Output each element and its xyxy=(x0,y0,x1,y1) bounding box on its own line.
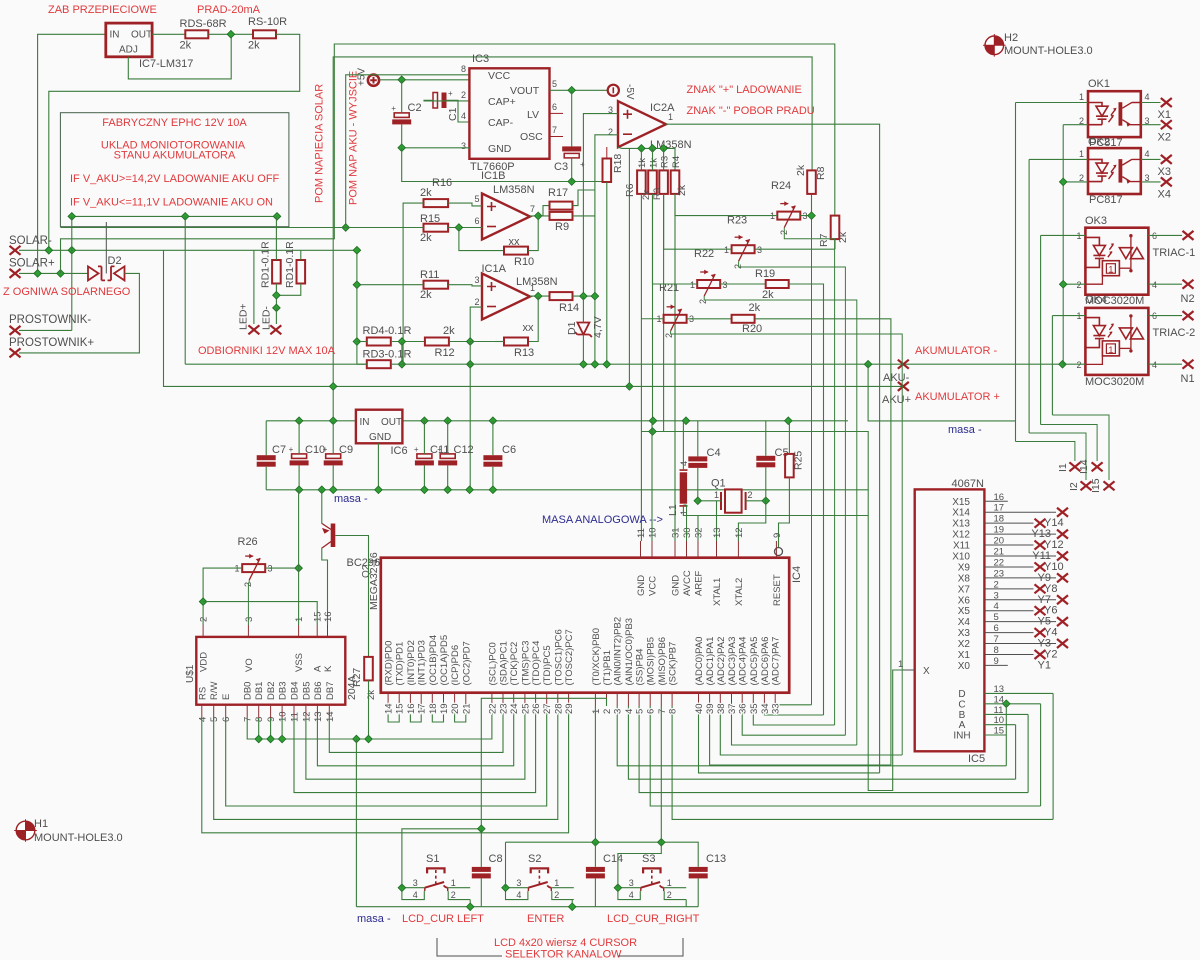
capacitor C4 xyxy=(688,456,707,461)
op-amp IC2A LM358N xyxy=(618,101,666,147)
wire OK2 pin2 xyxy=(1063,181,1088,183)
svg-text:masa -: masa - xyxy=(948,424,982,436)
terminal I14 X mark xyxy=(1092,462,1103,471)
resistor R18 vertical xyxy=(603,159,612,183)
svg-text:POM NAPIECIA SOLAR: POM NAPIECIA SOLAR xyxy=(314,84,326,203)
svg-text:DB5: DB5 xyxy=(301,682,312,700)
terminal Y mark X12 xyxy=(1057,530,1068,539)
junction bus A left xyxy=(68,213,76,221)
junction masa feedback col xyxy=(466,486,474,494)
wire R9 right xyxy=(573,215,595,217)
svg-text:LV: LV xyxy=(527,109,539,121)
junction R14/D1/IC2A+ xyxy=(580,292,588,300)
junction rail drop on AKU+ xyxy=(626,383,634,391)
junction ADJ/RDS/RS node xyxy=(227,30,235,38)
switch S2 body xyxy=(531,868,548,873)
svg-text:2k: 2k xyxy=(795,164,807,176)
svg-text:8: 8 xyxy=(254,717,265,722)
svg-text:(T1)PB1: (T1)PB1 xyxy=(602,650,613,685)
wire R16 right to pin5 xyxy=(448,203,482,206)
crystal Q1 xyxy=(725,489,742,512)
wire R2x wiper down xyxy=(671,331,903,755)
svg-text:XTAL2: XTAL2 xyxy=(734,578,745,606)
wire R7 bottom xyxy=(834,239,836,249)
svg-text:AVCC: AVCC xyxy=(682,570,693,596)
terminal N2 mark xyxy=(1183,280,1194,289)
svg-text:7: 7 xyxy=(657,709,668,714)
inductor L1 xyxy=(680,470,688,506)
terminal TRIAC-2 mark xyxy=(1183,311,1194,320)
svg-text:S1: S1 xyxy=(426,853,439,865)
wire PD pair jumper b xyxy=(410,706,421,722)
svg-text:OK3: OK3 xyxy=(1085,215,1107,227)
resistor R16 2k xyxy=(424,199,449,207)
wire C3 bottom xyxy=(571,158,573,182)
svg-text:MOUNT-HOLE3.0: MOUNT-HOLE3.0 xyxy=(34,832,123,844)
svg-text:AKU+: AKU+ xyxy=(882,394,911,406)
capacitor C13 xyxy=(689,867,708,872)
junction masa transistor col xyxy=(318,486,326,494)
terminal Y mark X6 xyxy=(1057,595,1068,604)
capacitor C1 polarized horizontal xyxy=(433,93,438,109)
pin stub OSC pin7 xyxy=(550,136,564,138)
wire AREF pin32 up xyxy=(697,516,699,542)
wire OK4 pin4 N1 xyxy=(1148,363,1182,365)
svg-text:4: 4 xyxy=(1152,360,1157,370)
svg-text:RD4-0.1R: RD4-0.1R xyxy=(363,325,412,337)
svg-text:22: 22 xyxy=(487,703,498,714)
wire VSS column from masa xyxy=(298,490,300,625)
wire INH column down xyxy=(1005,704,1007,766)
svg-text:PRAD-20mA: PRAD-20mA xyxy=(197,4,261,16)
svg-text:1: 1 xyxy=(530,283,535,293)
svg-text:1: 1 xyxy=(1108,345,1113,355)
svg-text:2: 2 xyxy=(733,264,743,269)
svg-text:IC6: IC6 xyxy=(391,445,408,457)
junction bus A right xyxy=(273,213,281,221)
svg-text:POM NAP AKU - WYJSCIE: POM NAP AKU - WYJSCIE xyxy=(348,71,360,205)
pin stub LV pin6 xyxy=(550,112,564,114)
svg-text:LED+: LED+ xyxy=(238,303,250,330)
wire I15 feed xyxy=(1052,415,1109,480)
resistor R12 xyxy=(425,338,449,346)
trimmer R2x bottom xyxy=(664,315,687,323)
wire R5 column to VCC rail xyxy=(652,148,654,170)
wire C5 top to rail1 xyxy=(765,421,767,456)
wire VOUT pin5 to -5V xyxy=(550,89,608,91)
supply +5V symbol xyxy=(368,75,379,86)
voltage regulator IC7 LM317 xyxy=(106,23,152,57)
svg-text:C14: C14 xyxy=(603,853,623,865)
wire C1 right to CAP- pin4 xyxy=(447,100,470,122)
terminal X SOLAR- xyxy=(10,246,21,255)
svg-text:X8: X8 xyxy=(958,573,971,584)
svg-text:R16: R16 xyxy=(432,177,452,189)
junction masa C6 xyxy=(489,486,497,494)
capacitor C10 polarized xyxy=(292,454,307,459)
junction S2/C14 xyxy=(592,838,600,846)
svg-text:X10: X10 xyxy=(952,552,970,563)
svg-text:S2: S2 xyxy=(528,853,541,865)
svg-text:(ADC5)PA5: (ADC5)PA5 xyxy=(749,637,760,686)
op-amp IC1B LM358N xyxy=(482,194,530,240)
resistor R19 2k xyxy=(766,280,789,288)
svg-text:(TCK)PC2: (TCK)PC2 xyxy=(509,642,520,686)
pin circle RESET xyxy=(775,548,783,556)
svg-text:(ADC4)PA4: (ADC4)PA4 xyxy=(738,637,749,686)
junction bus A mid xyxy=(181,213,189,221)
svg-text:VO: VO xyxy=(244,658,255,672)
svg-text:L1: L1 xyxy=(667,504,679,516)
wire RD4 left xyxy=(357,341,367,343)
junction masa C12 xyxy=(444,486,452,494)
svg-text:K: K xyxy=(323,665,334,672)
svg-text:VOUT: VOUT xyxy=(510,85,540,97)
wire IC2A minus input to AKU- bus xyxy=(595,135,618,364)
svg-text:IF V_AKU>=14,2V LADOWANIE AKU: IF V_AKU>=14,2V LADOWANIE AKU OFF xyxy=(70,173,280,185)
junction R network c xyxy=(660,145,668,153)
svg-text:LCD_CUR LEFT: LCD_CUR LEFT xyxy=(402,913,484,925)
svg-text:OUT: OUT xyxy=(131,30,152,41)
junction S1 left xyxy=(398,884,406,892)
trimmer R22 xyxy=(732,245,755,253)
wire DB tie drop xyxy=(258,718,260,739)
junction VCC col xyxy=(649,417,657,425)
svg-text:1: 1 xyxy=(690,280,695,290)
svg-text:IC4: IC4 xyxy=(791,566,803,583)
svg-text:GND: GND xyxy=(636,575,647,596)
optotriac OK3 body xyxy=(1085,228,1148,295)
junction C4/XTAL1 xyxy=(694,497,702,505)
svg-text:LM358N: LM358N xyxy=(516,276,558,288)
wire output up to R17 xyxy=(538,206,549,216)
svg-text:40: 40 xyxy=(694,703,705,714)
wire C14 bottom xyxy=(594,878,596,906)
svg-text:23: 23 xyxy=(499,703,510,714)
wire A column down xyxy=(1015,725,1017,780)
capacitor C11 polarized xyxy=(417,454,432,459)
svg-text:(OC1B)PD4: (OC1B)PD4 xyxy=(428,635,439,686)
svg-text:1: 1 xyxy=(898,659,903,670)
svg-text:2k: 2k xyxy=(366,690,377,700)
svg-text:R13: R13 xyxy=(514,347,534,359)
junction S2 left xyxy=(502,884,510,892)
wire PROSTOWNIK- to SOLAR- net xyxy=(19,329,72,331)
wire XTAL2 jog xyxy=(738,501,765,541)
wire +5V to VCC node xyxy=(379,79,469,81)
svg-text:4: 4 xyxy=(624,709,635,714)
wire C10 bottom xyxy=(298,465,300,489)
svg-text:7: 7 xyxy=(530,204,535,214)
svg-text:OK2: OK2 xyxy=(1088,136,1110,148)
terminal Y mark X2 xyxy=(1057,639,1068,648)
wire bus A inside info box xyxy=(72,215,277,217)
wire SOLAR- rail xyxy=(19,249,357,251)
svg-text:R12: R12 xyxy=(435,347,455,359)
wire L1 bottom analog masa xyxy=(683,506,868,516)
svg-text:RDS-68R: RDS-68R xyxy=(180,18,227,30)
svg-text:34: 34 xyxy=(760,703,771,714)
svg-text:ZAB PRZEPIECIOWE: ZAB PRZEPIECIOWE xyxy=(48,4,157,16)
svg-text:(RXD)PD0: (RXD)PD0 xyxy=(384,641,395,686)
wire D column down xyxy=(1052,693,1054,819)
svg-text:(ADC0)PA0: (ADC0)PA0 xyxy=(694,637,705,686)
wire R4 column to MCU GND pin 31 xyxy=(674,194,676,541)
wire bus A mid drop to SOLAR- xyxy=(184,216,186,250)
terminal X PROSTOWNIK- xyxy=(10,326,21,335)
svg-text:GND: GND xyxy=(369,432,391,443)
svg-text:C13: C13 xyxy=(706,853,726,865)
wire C13 bottom xyxy=(697,878,699,906)
junction rail S2 xyxy=(568,903,576,911)
svg-text:H1: H1 xyxy=(34,818,48,830)
svg-text:X6: X6 xyxy=(958,595,971,606)
resistor R11 2k xyxy=(424,281,449,289)
svg-text:4: 4 xyxy=(197,717,208,722)
junction R network b xyxy=(649,145,657,153)
wire OUT to RDS-68R xyxy=(152,33,185,35)
resistor R15 2k xyxy=(424,224,449,232)
resistor R5 vertical xyxy=(648,170,657,194)
svg-text:AKU-: AKU- xyxy=(883,372,910,384)
wire LED+ drop xyxy=(253,250,255,324)
wire S3 jog xyxy=(618,842,661,888)
wire S3 net drop xyxy=(660,706,662,842)
svg-text:R25: R25 xyxy=(793,451,805,470)
junction RD4/RD3 right xyxy=(398,338,406,346)
svg-text:I14: I14 xyxy=(1078,459,1090,474)
junction col AKU- bus xyxy=(466,360,474,368)
wire OK1 pin1 xyxy=(1016,102,1089,104)
svg-text:(MOSI)PB5: (MOSI)PB5 xyxy=(646,637,657,686)
wire Q2 collector to LCD K xyxy=(322,548,328,626)
wire C2 bottom to GND node xyxy=(401,124,403,147)
svg-text:12: 12 xyxy=(734,527,745,538)
svg-text:31: 31 xyxy=(671,527,682,538)
svg-text:R18: R18 xyxy=(612,154,624,173)
svg-text:IC5: IC5 xyxy=(968,753,985,765)
svg-text:3: 3 xyxy=(413,878,418,888)
svg-text:R7: R7 xyxy=(818,233,830,247)
svg-text:2: 2 xyxy=(451,890,456,900)
wire R24 wiper down xyxy=(784,228,834,725)
wire ADC channel line xyxy=(720,706,902,755)
svg-text:28: 28 xyxy=(553,703,564,714)
capacitor C7 xyxy=(257,455,276,460)
svg-text:10: 10 xyxy=(648,527,659,538)
junction IC1B out xyxy=(534,212,542,220)
svg-text:2: 2 xyxy=(1077,280,1082,290)
svg-text:(SCL)PC0: (SCL)PC0 xyxy=(487,642,498,685)
svg-text:X12: X12 xyxy=(952,530,970,541)
wire R11 left to sense column xyxy=(357,284,424,286)
bracket left xyxy=(437,938,502,956)
terminal X2 mark xyxy=(1161,120,1172,129)
wire R15 right junction to pin6 xyxy=(448,226,482,228)
dual schottky diode D2 xyxy=(88,266,99,280)
junction OK2 pin2 xyxy=(1059,178,1067,186)
wire ADC channel line xyxy=(742,706,845,735)
svg-text:4: 4 xyxy=(461,111,466,121)
junction L1 col xyxy=(682,417,690,425)
svg-text:C7: C7 xyxy=(272,444,286,456)
svg-text:Z OGNIWA SOLARNEGO: Z OGNIWA SOLARNEGO xyxy=(3,286,131,298)
svg-text:U$1: U$1 xyxy=(185,664,196,683)
svg-text:Q2: Q2 xyxy=(361,564,372,578)
junction D1 on AKU- xyxy=(580,360,588,368)
wire R20 right to ADC col xyxy=(755,319,891,765)
svg-text:6: 6 xyxy=(646,709,657,714)
svg-text:4: 4 xyxy=(629,890,634,900)
svg-text:X14: X14 xyxy=(952,508,970,519)
wire OK3 pin4 N2 xyxy=(1148,283,1182,285)
wire OK3 pin1 column xyxy=(1040,235,1042,424)
svg-text:(OC1A)PD5: (OC1A)PD5 xyxy=(439,635,450,686)
svg-text:I1: I1 xyxy=(1057,463,1069,472)
junction C5/XTAL2 xyxy=(762,497,770,505)
wire feedback col down xyxy=(469,342,471,490)
svg-text:16: 16 xyxy=(406,703,417,714)
wire AKU+ bus xyxy=(164,250,904,386)
svg-text:D1: D1 xyxy=(566,321,578,335)
wire OK2 pin4 xyxy=(1141,158,1161,160)
svg-text:20: 20 xyxy=(450,703,461,714)
svg-text:2k: 2k xyxy=(420,289,432,301)
svg-text:(TOSC2)PC7: (TOSC2)PC7 xyxy=(564,629,575,685)
svg-text:3: 3 xyxy=(516,878,521,888)
wire R26 wiper to VO xyxy=(247,580,250,625)
svg-text:X4: X4 xyxy=(1158,189,1171,201)
svg-text:26: 26 xyxy=(531,703,542,714)
wire OK1 pin1 column from masa rail xyxy=(1015,103,1017,442)
svg-text:2: 2 xyxy=(199,617,210,622)
resistor R17 xyxy=(550,202,573,210)
svg-text:33: 33 xyxy=(771,703,782,714)
svg-text:D2: D2 xyxy=(108,255,122,267)
switch S3 body xyxy=(643,868,660,873)
svg-text:29: 29 xyxy=(564,703,575,714)
svg-text:R9: R9 xyxy=(555,221,569,233)
wire OK2 pin3 xyxy=(1141,181,1161,183)
svg-text:C6: C6 xyxy=(502,444,516,456)
terminal I1 X mark xyxy=(1069,462,1080,471)
junction +5V/C2 xyxy=(398,76,406,84)
svg-text:RS-10R: RS-10R xyxy=(248,16,287,28)
svg-text:35: 35 xyxy=(749,703,760,714)
wire R21 pin3 to R19 xyxy=(720,283,766,285)
svg-text:VDD: VDD xyxy=(199,652,210,672)
wire Q2 base to R27 xyxy=(335,536,368,657)
wire R18 bottom to AKU- bus xyxy=(606,182,608,364)
junction C11 top xyxy=(421,417,429,425)
svg-text:(SS)PB4: (SS)PB4 xyxy=(635,649,646,686)
resistor RDS-68R 2k xyxy=(185,30,208,38)
trimmer R24 xyxy=(777,212,800,220)
svg-text:RD3-0.1R: RD3-0.1R xyxy=(363,349,412,361)
svg-text:X3: X3 xyxy=(1158,166,1171,178)
svg-text:C: C xyxy=(958,699,965,710)
svg-text:2k: 2k xyxy=(420,232,432,244)
svg-text:I15: I15 xyxy=(1090,478,1102,493)
svg-text:IC1A: IC1A xyxy=(482,263,507,275)
wire crystal right xyxy=(746,500,766,502)
capacitor C2 polarized xyxy=(394,113,409,118)
optotriac OK4 body xyxy=(1085,308,1148,375)
wire C8 bottom xyxy=(480,878,482,906)
zener diode D1 4,7V xyxy=(577,323,589,335)
wire R27 bottom xyxy=(368,680,370,739)
wire D2 center tap xyxy=(105,222,107,273)
wire R17 to minus column xyxy=(573,190,595,206)
svg-text:AKUMULATOR -: AKUMULATOR - xyxy=(915,345,997,357)
wire R18 top stub xyxy=(606,147,608,159)
wire OK3 pin2 xyxy=(1063,283,1085,285)
svg-text:9: 9 xyxy=(266,717,277,722)
svg-text:N1: N1 xyxy=(1181,373,1195,385)
wire ADC channel line xyxy=(775,705,811,706)
wire R14 right node xyxy=(573,295,595,297)
svg-text:CAP-: CAP- xyxy=(488,117,514,129)
junction DB masa tie xyxy=(278,735,286,743)
junction RD4 tap xyxy=(353,338,361,346)
wire RDS-68R to RS-10R junction xyxy=(208,33,253,35)
svg-text:1: 1 xyxy=(1079,149,1084,159)
wire masa switch rail xyxy=(356,906,698,908)
wire C7 bottom xyxy=(265,467,267,490)
svg-text:2k: 2k xyxy=(749,302,761,314)
wire OK4 pin1 column xyxy=(1051,316,1053,415)
wire out down to R13 xyxy=(528,296,538,341)
resistor R6 vertical xyxy=(637,170,646,194)
junction R15/R10 node xyxy=(455,224,463,232)
svg-text:DB2: DB2 xyxy=(266,682,277,700)
svg-text:(TDI)PC5: (TDI)PC5 xyxy=(542,645,553,685)
wire IC1A output to R14 xyxy=(530,295,550,297)
svg-text:X0: X0 xyxy=(958,661,971,672)
terminal Y mark X10 xyxy=(1057,551,1068,560)
wire D2 right to PROSTOWNIK+ xyxy=(19,273,139,353)
wire IC5 address line xyxy=(639,706,1028,793)
svg-text:R/W: R/W xyxy=(209,682,220,701)
junction S3 left xyxy=(614,884,622,892)
wire OK2 pin1 column xyxy=(1028,159,1030,433)
terminal Y mark X11 xyxy=(1035,541,1046,550)
svg-text:4: 4 xyxy=(516,890,521,900)
wire crystal left to XTAL1 xyxy=(698,500,721,502)
wire XTAL1 drop xyxy=(716,501,718,541)
svg-text:3: 3 xyxy=(629,878,634,888)
terminal X4 mark xyxy=(1161,177,1172,186)
svg-text:OUT: OUT xyxy=(381,417,402,428)
wire masa drop to switch rail xyxy=(355,739,357,907)
wire RD1 bottoms join xyxy=(275,284,277,308)
junction masa IC6 GND xyxy=(375,486,383,494)
junction VCC drop on bus B xyxy=(342,224,350,232)
wire R24 pin3 to R8 xyxy=(800,194,811,216)
wire C8 top xyxy=(480,829,482,867)
wire C14 top xyxy=(594,842,596,867)
svg-text:D: D xyxy=(958,689,965,700)
svg-text:21: 21 xyxy=(461,703,472,714)
wire IC2A plus input from R14 node xyxy=(583,114,618,297)
junction C3 bottom xyxy=(568,178,576,186)
wire R3 column to rail2 xyxy=(663,148,665,170)
svg-text:ADJ: ADJ xyxy=(119,44,138,55)
svg-text:TRIAC-1: TRIAC-1 xyxy=(1153,247,1196,259)
terminal Y mark X4 xyxy=(1057,617,1068,626)
wire R21 wiper down xyxy=(704,296,857,745)
svg-text:C2: C2 xyxy=(408,102,422,114)
